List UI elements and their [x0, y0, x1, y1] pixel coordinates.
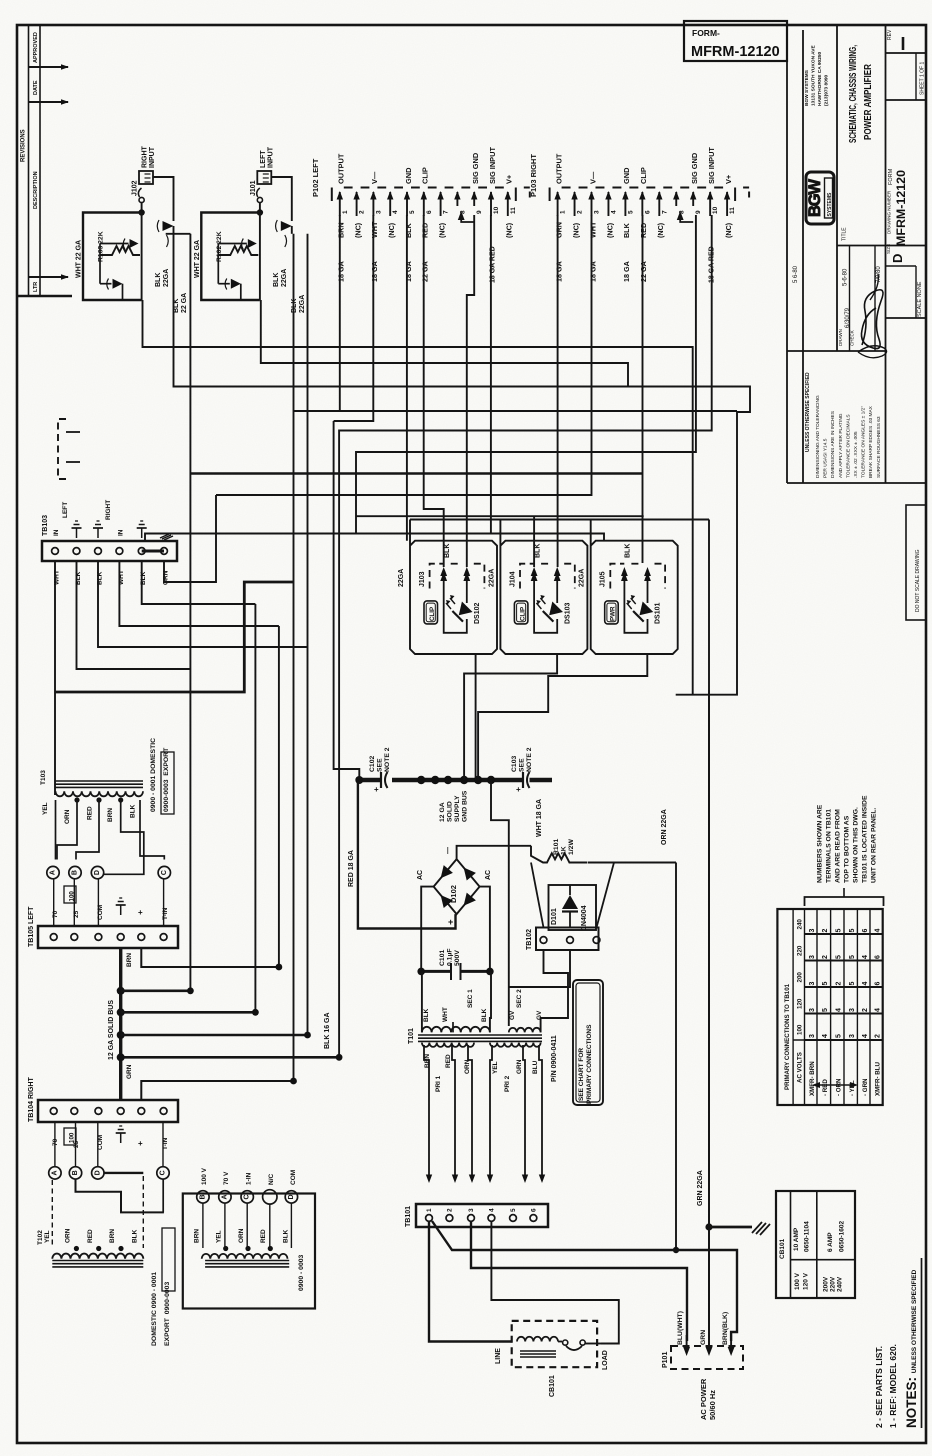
svg-text:2: 2 — [359, 210, 366, 214]
svg-text:ORN 22GA: ORN 22GA — [661, 809, 668, 845]
export winding taps — [223, 1246, 228, 1251]
junction dots on bus verticals — [187, 987, 194, 994]
TB103 pin2 wire — [77, 561, 191, 669]
svg-text:100: 100 — [69, 891, 76, 902]
svg-text:BLK: BLK — [155, 273, 162, 287]
svg-text:9: 9 — [695, 210, 702, 214]
svg-text:C: C — [160, 1170, 167, 1175]
svg-text:WHT 22 GA: WHT 22 GA — [76, 240, 83, 278]
svg-text:BLK: BLK — [283, 1229, 290, 1243]
connector J104 dashed shell — [520, 564, 534, 589]
svg-text:5: 5 — [836, 955, 843, 959]
svg-text:18 GA: 18 GA — [404, 261, 413, 282]
TB103 pin6 wire GRN — [164, 495, 216, 582]
P103 pin10 wire RED py430 — [339, 215, 712, 1057]
svg-text:(NC): (NC) — [656, 222, 665, 238]
svg-text:SOLID: SOLID — [447, 801, 454, 822]
table bottom arrow — [815, 1084, 855, 1086]
svg-text:BLK: BLK — [481, 1008, 488, 1022]
svg-text:RED: RED — [445, 1054, 452, 1068]
T102 core — [52, 1260, 143, 1262]
svg-text:9: 9 — [476, 210, 483, 214]
CB101 switch — [563, 1340, 568, 1345]
svg-text:11: 11 — [510, 207, 517, 214]
svg-text:22 GA: 22 GA — [421, 261, 430, 282]
svg-text:B: B — [199, 1194, 206, 1199]
svg-text:2: 2 — [577, 210, 584, 214]
svg-text:6/30/79: 6/30/79 — [845, 307, 851, 328]
jack J102 RIGHT INPUT — [139, 171, 153, 184]
svg-text:+: + — [138, 1139, 143, 1148]
svg-text:0900 - 0003: 0900 - 0003 — [298, 1254, 305, 1291]
svg-text:1N4004: 1N4004 — [581, 905, 588, 930]
svg-text:DO NOT SCALE DRAWING: DO NOT SCALE DRAWING — [915, 549, 921, 612]
svg-text:DOMESTIC 0900 - 0001: DOMESTIC 0900 - 0001 — [151, 1272, 158, 1346]
svg-text:200: 200 — [797, 972, 804, 983]
svg-text:(NC): (NC) — [387, 222, 396, 238]
svg-text:12 GA: 12 GA — [439, 802, 446, 822]
drawn/check cell dividers — [849, 246, 851, 352]
svg-text:TITLE: TITLE — [842, 227, 848, 241]
svg-text:D: D — [94, 1170, 101, 1175]
svg-text:J104: J104 — [509, 571, 516, 587]
svg-text:GRN: GRN — [700, 1330, 707, 1345]
svg-text:A: A — [50, 870, 57, 875]
svg-text:3: 3 — [849, 1008, 856, 1012]
svg-text:C: C — [161, 870, 168, 875]
svg-text:2: 2 — [862, 1008, 869, 1012]
svg-text:PRIMARY CONNECTIONS: PRIMARY CONNECTIONS — [586, 1024, 593, 1104]
ground box around R102 — [201, 213, 260, 301]
web horizontal wire py519 — [410, 519, 709, 521]
svg-text:(NC): (NC) — [571, 222, 580, 238]
svg-text:BLK: BLK — [273, 273, 280, 287]
svg-text:100: 100 — [797, 1024, 804, 1035]
svg-text:1 - REF: MODEL 620.: 1 - REF: MODEL 620. — [888, 1344, 898, 1428]
svg-text:SYSTEMS: SYSTEMS — [827, 192, 833, 217]
svg-text:5: 5 — [822, 982, 829, 986]
svg-text:2: 2 — [446, 1208, 453, 1212]
svg-text:B: B — [72, 1170, 79, 1175]
LED DS101 — [633, 601, 653, 621]
svg-text:(NC): (NC) — [353, 222, 362, 238]
svg-text:AND APPLY AFTER PLATING: AND APPLY AFTER PLATING — [838, 413, 844, 478]
P102 pin10 wire RED SIG INPUT — [490, 215, 492, 534]
svg-text:7: 7 — [443, 210, 450, 214]
svg-text:18 GA: 18 GA — [588, 261, 597, 282]
svg-text:V+: V+ — [505, 174, 514, 184]
svg-text:10 AMP: 10 AMP — [793, 1227, 800, 1251]
svg-text:SIG GND: SIG GND — [471, 152, 480, 184]
svg-text:A: A — [51, 1170, 58, 1175]
svg-text:1: 1 — [342, 210, 349, 214]
export transformer box 0900-0003 — [183, 1194, 315, 1309]
svg-text:LOAD: LOAD — [602, 1350, 609, 1370]
svg-text:220: 220 — [797, 945, 804, 956]
connector J103 dashed shell — [430, 564, 444, 589]
svg-text:DS103: DS103 — [564, 602, 571, 624]
P102 pin1 wire BRN 18GA — [339, 215, 341, 411]
svg-text:10: 10 — [493, 206, 500, 214]
GRN 22GA long wire — [708, 520, 710, 1347]
indicator label plate CLIP — [514, 601, 528, 624]
svg-text:RED: RED — [639, 223, 648, 238]
svg-text:C: C — [244, 1194, 251, 1199]
svg-text:22GA: 22GA — [579, 569, 586, 587]
svg-text:P103 RIGHT: P103 RIGHT — [529, 154, 538, 197]
svg-text:4: 4 — [862, 982, 869, 986]
svg-text:18 GA: 18 GA — [370, 261, 379, 282]
cluster 1 bottom wire to bus — [475, 654, 477, 780]
svg-text:BLK: BLK — [291, 299, 298, 313]
svg-text:BRN: BRN — [109, 1229, 116, 1243]
svg-text:120: 120 — [797, 998, 804, 1009]
svg-text:CLIP: CLIP — [639, 167, 648, 184]
svg-text:POWER AMPLIFIER: POWER AMPLIFIER — [862, 64, 874, 140]
svg-text:PRI 2: PRI 2 — [504, 1075, 511, 1092]
chassis ground symbol pin6 — [160, 534, 173, 540]
svg-text:- RED: - RED — [822, 1079, 829, 1096]
connector P103 RIGHT dashed shell — [550, 188, 736, 202]
indicator label plate CLIP — [424, 601, 438, 624]
T103 tap wires to terminal circles — [55, 800, 57, 860]
svg-text:6: 6 — [530, 1208, 537, 1212]
svg-text:22 GA: 22 GA — [639, 261, 648, 282]
12GA solid bus between TB105 and TB104 — [119, 948, 122, 1100]
J104 pin arrows — [533, 575, 535, 589]
svg-text:FORM-: FORM- — [692, 28, 720, 38]
svg-text:BRN(BLK): BRN(BLK) — [722, 1312, 729, 1345]
transformer T103 core — [56, 780, 144, 782]
T101 PRI1 winding — [422, 1043, 474, 1047]
svg-text:B: B — [72, 870, 79, 875]
TB101 pin1 wire to CB101 LINE — [429, 1221, 512, 1342]
svg-text:REV: REV — [887, 29, 893, 40]
svg-text:LEFT: LEFT — [62, 502, 69, 518]
svg-text:BLK 16 GA: BLK 16 GA — [324, 1012, 331, 1049]
svg-text:- GRN: - GRN — [862, 1078, 869, 1096]
svg-text:13131 SOUTH YUKON AVE: 13131 SOUTH YUKON AVE — [811, 45, 817, 106]
svg-text:3: 3 — [809, 955, 816, 959]
svg-text:1-IN: 1-IN — [246, 1172, 253, 1185]
P103 pin9 wire py452 — [356, 215, 696, 534]
svg-text:7: 7 — [661, 210, 668, 214]
connector P101 dashed shell — [671, 1346, 743, 1369]
bridge top wire to R101 area — [457, 846, 531, 859]
svg-text:SUPPLY: SUPPLY — [454, 795, 461, 822]
svg-text:J103: J103 — [419, 571, 426, 587]
svg-text:- YEL: - YEL — [849, 1080, 856, 1096]
svg-text:6: 6 — [644, 210, 651, 214]
svg-text:5: 5 — [849, 955, 856, 959]
svg-text:0650-1104: 0650-1104 — [804, 1221, 811, 1252]
svg-text:- ORN: - ORN — [836, 1078, 843, 1096]
svg-text:4: 4 — [392, 210, 399, 214]
svg-text:4: 4 — [822, 1034, 829, 1038]
svg-text:5-6-80: 5-6-80 — [843, 268, 849, 286]
svg-text:RED: RED — [421, 223, 430, 238]
indicator circuit DS103 outer wiring — [500, 520, 587, 655]
svg-text:BLK: BLK — [625, 544, 632, 558]
svg-text:(NC): (NC) — [605, 222, 614, 238]
svg-text:T-IN: T-IN — [162, 907, 169, 920]
T101 primary wires to TB101 with arrows — [424, 1045, 429, 1175]
svg-text:(213)973 8090: (213)973 8090 — [824, 74, 830, 106]
svg-text:TB103: TB103 — [42, 515, 49, 536]
do not scale drawing cell — [906, 505, 926, 620]
export transformer stub wires — [202, 1204, 204, 1249]
svg-text:BLK: BLK — [444, 544, 451, 558]
P102 pin5 wire BLK GND — [406, 215, 408, 541]
svg-text:T101: T101 — [408, 1028, 415, 1044]
P101 pin arrows — [683, 1347, 690, 1356]
svg-text:22GA: 22GA — [163, 269, 170, 287]
svg-text:INPUT: INPUT — [267, 146, 274, 168]
svg-text:11: 11 — [729, 207, 736, 214]
svg-text:18 GA: 18 GA — [554, 261, 563, 282]
svg-text:TB102: TB102 — [526, 929, 533, 950]
svg-text:J101: J101 — [250, 180, 257, 196]
svg-text:0650-1602: 0650-1602 — [839, 1221, 846, 1252]
svg-text:AC POWER: AC POWER — [699, 1378, 708, 1420]
svg-text:RED: RED — [87, 1229, 94, 1243]
svg-text:1/2W: 1/2W — [568, 839, 575, 855]
svg-text:TB101: TB101 — [405, 1206, 412, 1227]
revisions block — [28, 25, 30, 296]
svg-text:WHT 18 GA: WHT 18 GA — [536, 799, 543, 837]
T103 winding taps — [74, 797, 79, 802]
svg-text:V—: V— — [370, 171, 379, 184]
svg-text:AND ARE READ FROM: AND ARE READ FROM — [835, 809, 842, 883]
svg-text:COM: COM — [97, 905, 104, 920]
svg-text:5: 5 — [836, 929, 843, 933]
svg-text:RED: RED — [260, 1229, 267, 1243]
svg-text:BRN: BRN — [107, 808, 114, 822]
svg-text:T103: T103 — [40, 770, 47, 785]
svg-text:3: 3 — [809, 982, 816, 986]
P102 LEFT pin arrows and numbers — [339, 192, 341, 216]
svg-text:5: 5 — [849, 929, 856, 933]
svg-text:CB101: CB101 — [779, 1238, 786, 1259]
svg-text:MFRM-12120: MFRM-12120 — [894, 170, 908, 246]
TB103 pin3 wire — [98, 561, 308, 647]
svg-text:SHOWN ON THIS DWG.: SHOWN ON THIS DWG. — [853, 807, 860, 883]
svg-text:BLK: BLK — [423, 1008, 430, 1022]
svg-text:12 GA SOLID BUS: 12 GA SOLID BUS — [108, 1000, 115, 1060]
connector P102 LEFT dashed shell — [332, 188, 516, 202]
indicator circuit DS102 outer wiring — [410, 520, 497, 655]
svg-text:0900-0003 EXPORT: 0900-0003 EXPORT — [163, 747, 170, 812]
T101 PRI2 winding — [490, 1043, 541, 1047]
svg-text:220V: 220V — [829, 1276, 836, 1292]
svg-text:5: 5 — [627, 210, 634, 214]
terminal strip TB105 — [38, 926, 178, 948]
svg-text:NUMBERS SHOWN ARE: NUMBERS SHOWN ARE — [817, 804, 824, 883]
svg-text:22 GA: 22 GA — [181, 293, 188, 313]
svg-text:3: 3 — [809, 1034, 816, 1038]
svg-text:IN: IN — [117, 529, 124, 536]
svg-text:7/9/80: 7/9/80 — [876, 266, 882, 283]
svg-text:GRN 22GA: GRN 22GA — [697, 1170, 704, 1206]
diode D101 1N4004 box — [549, 885, 597, 930]
svg-text:25: 25 — [73, 910, 80, 918]
svg-text:DRAWN: DRAWN — [838, 329, 843, 346]
transformer T102 winding — [52, 1254, 143, 1259]
capacitor C103 — [522, 772, 524, 788]
svg-text:2: 2 — [875, 1034, 882, 1038]
bus branch wires to vertical bus wires — [121, 989, 191, 992]
TB103 pin4 wire — [119, 561, 279, 626]
svg-text:BLK: BLK — [534, 544, 541, 558]
svg-text:BRN: BRN — [193, 1229, 200, 1243]
svg-text:BLK: BLK — [622, 222, 631, 238]
svg-text:XMFR- BLU: XMFR- BLU — [875, 1061, 882, 1096]
R101 right lead / ORN wire — [588, 862, 676, 864]
svg-text:GV: GV — [509, 1010, 516, 1020]
svg-text:DRAWING NUMBER: DRAWING NUMBER — [887, 190, 892, 234]
svg-text:5: 5 — [849, 982, 856, 986]
long vertical wire px255 — [254, 604, 256, 1012]
P103 pin3 wire WHT py495 — [216, 215, 592, 495]
svg-text:4: 4 — [488, 1208, 495, 1212]
svg-text:SEE CHART FOR: SEE CHART FOR — [578, 1048, 585, 1101]
TB103 pin1 wire to T103 — [54, 561, 56, 795]
svg-text:240V: 240V — [836, 1276, 843, 1292]
svg-text:100 V: 100 V — [201, 1167, 208, 1185]
svg-text:A: A — [221, 1194, 228, 1199]
svg-text:SCHEMATIC, CHASSIS WIRING,: SCHEMATIC, CHASSIS WIRING, — [847, 45, 859, 143]
TB101 pin4 wire to CB101 LOAD — [491, 1221, 618, 1344]
svg-text:J102: J102 — [132, 180, 139, 196]
svg-text:BRN: BRN — [126, 953, 133, 967]
P102 pin3 wire WHT 18GA — [334, 215, 374, 421]
svg-text:D: D — [94, 870, 101, 875]
long vertical wire BLK 22GA px307 — [307, 234, 309, 1035]
svg-text:V—: V— — [588, 171, 597, 184]
svg-text:2: 2 — [822, 929, 829, 933]
web horizontal wire py411 — [294, 410, 738, 412]
cluster 3 bottom wire to bus — [478, 654, 647, 780]
svg-text:SURFACE ROUGHNESS 63: SURFACE ROUGHNESS 63 — [876, 416, 882, 478]
svg-text:R102 22K: R102 22K — [216, 231, 223, 262]
svg-text:.XX ± .02 .XXX ± .005: .XX ± .02 .XXX ± .005 — [853, 431, 859, 478]
DS102 internal wiring — [444, 589, 467, 633]
svg-text:NOTE 2: NOTE 2 — [384, 747, 391, 772]
web horizontal wire py516 — [356, 515, 644, 517]
svg-text:ORN: ORN — [65, 1228, 72, 1243]
long vertical wire px279 — [278, 626, 280, 967]
note pointer bracket — [805, 897, 884, 906]
svg-text:CB101: CB101 — [549, 1375, 556, 1397]
terminal strip TB101 — [416, 1204, 548, 1227]
svg-text:YEL: YEL — [44, 1230, 51, 1243]
svg-text:GND BUS: GND BUS — [462, 790, 469, 822]
T102 dashed connection wires — [51, 1180, 53, 1248]
svg-text:SEE: SEE — [377, 758, 384, 772]
cluster 2 bottom wire to bus — [464, 654, 557, 780]
svg-text:PWR: PWR — [610, 606, 617, 621]
svg-text:BREAK SHARP EDGES .03 MAX: BREAK SHARP EDGES .03 MAX — [868, 405, 874, 478]
svg-text:DIMENSIONS ARE IN INCHES: DIMENSIONS ARE IN INCHES — [830, 411, 836, 478]
svg-text:3: 3 — [809, 1008, 816, 1012]
terminal strip TB103 — [42, 541, 177, 561]
svg-text:6 AMP: 6 AMP — [827, 1232, 834, 1252]
svg-text:INPUT: INPUT — [149, 146, 156, 168]
export transformer terminals — [197, 1191, 209, 1203]
svg-text:BLU(WHT): BLU(WHT) — [677, 1311, 684, 1345]
bridge rectifier D102 — [434, 859, 480, 914]
svg-text:4: 4 — [862, 1034, 869, 1038]
svg-text:BLK: BLK — [404, 222, 413, 238]
svg-text:LTR: LTR — [33, 282, 39, 292]
svg-text:ORN: ORN — [64, 809, 71, 824]
web horizontal py533 — [145, 534, 604, 542]
capacitor C102 — [380, 772, 382, 788]
svg-text:—: — — [445, 847, 452, 854]
svg-text:TB105 LEFT: TB105 LEFT — [28, 906, 35, 947]
TB103 pin5 wire — [142, 561, 256, 604]
off-board connector stub at left — [58, 419, 66, 479]
svg-text:AC VOLTS: AC VOLTS — [797, 1052, 804, 1083]
CB101 coil — [517, 1337, 558, 1342]
web horizontal wire py347 — [143, 300, 693, 695]
svg-text:WHT: WHT — [588, 221, 597, 238]
svg-text:APPROVED: APPROVED — [33, 32, 39, 63]
connector J105 dashed shell — [610, 564, 624, 589]
svg-text:0.1µF: 0.1µF — [447, 948, 454, 966]
jack J102 switch contacts — [163, 221, 174, 231]
svg-text:22GA: 22GA — [281, 269, 288, 287]
resistor R103 — [100, 246, 140, 255]
svg-text:100 V: 100 V — [794, 1272, 801, 1290]
svg-text:+: + — [448, 917, 453, 927]
svg-text:70: 70 — [52, 910, 59, 918]
svg-text:RED 18 GA: RED 18 GA — [348, 850, 355, 887]
supply ground bus 12GA — [358, 778, 381, 783]
terminal circles A B D C (TB105) — [47, 866, 59, 878]
svg-text:YEL: YEL — [216, 1230, 223, 1243]
export transformer core — [205, 1260, 289, 1262]
svg-text:22GA: 22GA — [299, 295, 306, 313]
TB104 D jumper wire — [104, 1172, 143, 1174]
svg-text:R101: R101 — [553, 839, 560, 855]
terminal strip TB102 — [536, 928, 599, 951]
svg-text:DIMENSIONING AND TOLERANCING: DIMENSIONING AND TOLERANCING — [815, 395, 821, 478]
svg-text:DS101: DS101 — [655, 602, 662, 624]
svg-text:GND: GND — [622, 167, 631, 184]
svg-text:BLK: BLK — [130, 804, 137, 818]
svg-text:3: 3 — [375, 210, 382, 214]
svg-text:DESCRIPTION: DESCRIPTION — [33, 171, 39, 209]
svg-text:ORN: ORN — [464, 1059, 471, 1074]
svg-text:IN: IN — [53, 529, 60, 536]
svg-text:SHEET 1 OF 1: SHEET 1 OF 1 — [920, 62, 926, 95]
J105 pin arrows — [623, 575, 625, 589]
J101 output wire — [261, 300, 628, 387]
svg-text:MFRM-12120: MFRM-12120 — [691, 44, 780, 60]
svg-text:RIGHT: RIGHT — [142, 146, 149, 169]
svg-text:DS102: DS102 — [474, 602, 481, 624]
T101 SEC2 right wire to TB102 — [541, 950, 568, 1032]
svg-text:TERMINALS ON TB101: TERMINALS ON TB101 — [826, 809, 833, 883]
ground symbol pin5 — [141, 528, 143, 538]
svg-text:10: 10 — [712, 206, 719, 214]
ORN wire down — [675, 863, 677, 1251]
svg-text:3: 3 — [594, 210, 601, 214]
svg-text:C103: C103 — [511, 756, 518, 772]
svg-text:4: 4 — [610, 210, 617, 214]
table CB101 — [776, 1191, 855, 1298]
